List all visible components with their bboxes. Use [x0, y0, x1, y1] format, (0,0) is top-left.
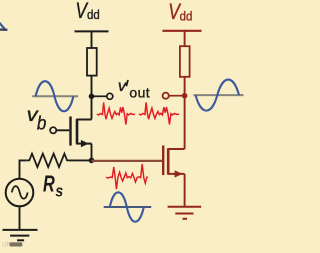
- wire: Rs to input node: [69, 159, 92, 161]
- blue sine (input at vb stage, axis): [32, 95, 78, 97]
- cropped blue sine tail, top-left corner: [0, 23, 7, 30]
- transistor M1 (left NMOS, black): [71, 117, 92, 146]
- wire: M2 source to ground: [184, 174, 186, 207]
- terminal vb (open circle): [50, 127, 56, 133]
- wire: right Vdd bar to resistor: [184, 31, 186, 47]
- wire: stub terminal to right node: [169, 95, 185, 97]
- blue sine (output, inverted, curve): [196, 80, 239, 111]
- watermark: [2, 242, 22, 248]
- noise waveform at M2 gate (burst C): [106, 164, 148, 189]
- noise waveform at v'out (burst A): [97, 103, 135, 125]
- sine glyph inside source: [12, 186, 28, 199]
- label Rs: [43, 172, 63, 201]
- wire: vb terminal to gate: [56, 129, 69, 131]
- resistor RD2 (right, box style): [180, 46, 190, 77]
- svg-text:v: v: [118, 79, 127, 96]
- wire: source up to Rs: [20, 160, 27, 178]
- transistor M2 (right NMOS, red): [163, 146, 184, 176]
- node: right drain node (junction dot): [182, 93, 188, 99]
- svg-text:out: out: [129, 84, 150, 100]
- gate bar: [69, 117, 71, 146]
- power rail bar (left Vdd): [75, 30, 109, 32]
- svg-text:dd: dd: [87, 8, 100, 23]
- wire: stub to v'out terminal: [92, 95, 107, 97]
- source lead: [76, 143, 91, 145]
- terminal v'out (open circle): [107, 93, 113, 99]
- wire: source to ground (left): [19, 206, 21, 230]
- wire: M1 source down to input node: [91, 144, 93, 161]
- ground (right, red): [168, 207, 202, 219]
- wire: input node to M2 gate (brown): [92, 160, 163, 162]
- gate bar: [162, 146, 164, 176]
- label Vdd (left, black): [75, 0, 99, 24]
- wire: left Vdd bar to resistor: [91, 31, 93, 48]
- source arrow of M1: [81, 140, 89, 147]
- wire: node down to M1 drain: [91, 96, 93, 119]
- power rail bar (right Vdd): [162, 30, 201, 32]
- node: input node (junction dot): [89, 158, 95, 164]
- label vb: [27, 104, 47, 133]
- wire: right node down to M2 drain: [184, 96, 186, 149]
- resistor RD1 (left, box style): [87, 48, 97, 76]
- ground (left): [3, 230, 38, 240]
- source arrow of M2: [175, 170, 183, 177]
- channel bar: [167, 149, 170, 175]
- svg-text:s: s: [55, 182, 63, 200]
- resistor Rs (zigzag): [27, 154, 69, 167]
- channel bar: [76, 119, 79, 144]
- noise waveform at out node (burst B): [139, 103, 179, 125]
- drain lead: [167, 148, 184, 150]
- blue sine (output, inverted, axis): [193, 94, 243, 96]
- wire: resistor to right drain node: [184, 77, 186, 96]
- source lead: [167, 173, 184, 175]
- blue sine (input at vb stage, curve): [36, 81, 74, 111]
- label Vdd (right, red): [168, 0, 192, 24]
- signal source vin (circle): [6, 179, 34, 207]
- blue sine (at M2 gate, curve): [110, 192, 144, 221]
- label v'out: [118, 79, 150, 101]
- wire: resistor to drain node: [91, 76, 93, 97]
- blue sine (at M2 gate, axis): [104, 206, 152, 208]
- svg-text:b: b: [37, 111, 46, 133]
- node: left drain node (junction dot): [89, 94, 95, 100]
- svg-text:UF: UF: [2, 243, 10, 249]
- terminal out (open circle, red): [163, 93, 169, 99]
- svg-text:dd: dd: [180, 9, 193, 24]
- svg-text:R: R: [43, 172, 55, 197]
- drain lead: [76, 119, 91, 121]
